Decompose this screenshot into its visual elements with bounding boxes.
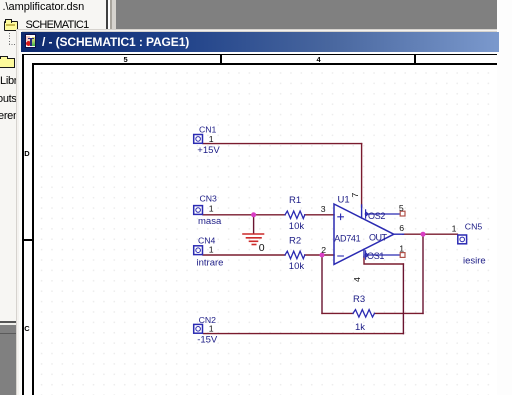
wire pin4 horizontal: [364, 257, 403, 265]
svg-text:R3: R3: [353, 294, 365, 305]
resistor R3: [353, 310, 375, 318]
svg-text:1: 1: [209, 324, 214, 334]
zone label 4: [317, 55, 321, 64]
zone tick top 2: [414, 54, 416, 65]
svg-text:7: 7: [350, 193, 360, 198]
resistor R1: [285, 211, 305, 219]
title bar: [21, 32, 499, 52]
svg-text:4: 4: [352, 277, 362, 282]
pin 4 stub: [363, 249, 365, 257]
wire intrare row: [203, 254, 334, 256]
project tree window background (top-left): [0, 0, 107, 32]
tree dotted branch: [9, 44, 16, 45]
connector CN2 symbol: [194, 324, 203, 333]
zone label 5: [124, 55, 128, 64]
resistor R2: [285, 251, 305, 259]
tree text amplificator.dsn: [3, 1, 85, 13]
tree item eren: [0, 110, 19, 122]
svg-text:1k: 1k: [355, 322, 365, 333]
svg-text:intrare: intrare: [197, 257, 224, 268]
op-amp plus mark: [338, 214, 344, 220]
inner left line (page frame): [32, 63, 34, 395]
wire +15V horizontal: [203, 143, 362, 145]
window edge dark line in gray area: [0, 333, 16, 334]
tree text SCHEMATIC1: [26, 19, 89, 31]
svg-text:0: 0: [259, 242, 265, 254]
zone label D: [24, 149, 29, 158]
wire feedback right vertical: [422, 234, 424, 313]
wire feedback left vertical: [321, 255, 323, 313]
tree item Library: [0, 75, 32, 87]
pin 6 stub: [394, 233, 404, 235]
svg-text:OS1: OS1: [367, 251, 384, 261]
tree item outs: [0, 93, 17, 105]
wire -15V horizontal: [204, 333, 404, 335]
no-connect square pin 1: [400, 253, 405, 258]
svg-text:1: 1: [452, 224, 457, 234]
wire masa row: [203, 214, 334, 216]
folder icon (tree): [0, 58, 15, 68]
svg-text:-15V: -15V: [197, 335, 218, 346]
svg-text:CN3: CN3: [200, 193, 218, 203]
outer left line: [22, 54, 24, 395]
junction output node: [421, 232, 426, 237]
connector CN4 symbol: [194, 246, 203, 255]
svg-text:10k: 10k: [289, 221, 305, 232]
svg-text:AD741: AD741: [334, 233, 360, 243]
tree dotted vertical: [9, 33, 10, 44]
zone label C: [24, 324, 29, 333]
junction masa-ground: [251, 212, 256, 217]
wire output row: [403, 233, 457, 235]
svg-text:R2: R2: [289, 236, 301, 247]
svg-text:1: 1: [399, 244, 404, 254]
pin OS1: [365, 251, 400, 259]
wire R3 row: [322, 312, 423, 314]
white strip right edge: [497, 0, 512, 395]
svg-text:3: 3: [321, 204, 326, 214]
wire ground drop: [253, 215, 255, 234]
MDI gray bottom-left: [0, 325, 16, 395]
svg-text:1: 1: [209, 244, 214, 254]
op-amp minus mark: [338, 255, 344, 257]
page canvas dotted grid: [34, 66, 497, 395]
pin 7 stub: [361, 205, 363, 218]
left tree strip under window: [0, 32, 16, 322]
tree window bottom border: [0, 321, 16, 323]
inner top line (page frame): [32, 63, 497, 65]
folder icon SCHEMATIC1: [4, 21, 18, 31]
ground 0 symbol: [243, 234, 264, 245]
connector CN1 symbol: [194, 135, 203, 144]
svg-text:+15V: +15V: [197, 145, 220, 156]
svg-text:6: 6: [399, 223, 404, 233]
pin OS2: [365, 210, 400, 218]
MDI dark gray background (top strip): [116, 0, 497, 31]
svg-text:1: 1: [209, 203, 214, 213]
title text: [42, 35, 189, 49]
wire +15V vertical to pin7: [361, 144, 363, 207]
border frame: outer top line: [22, 54, 497, 56]
svg-text:OUT: OUT: [369, 232, 388, 242]
svg-text:2: 2: [321, 245, 326, 255]
svg-text:R1: R1: [289, 195, 301, 206]
junction inverting input: [320, 253, 325, 258]
tree window right border: [106, 0, 108, 32]
svg-text:1: 1: [209, 134, 214, 144]
svg-text:U1: U1: [338, 195, 350, 206]
svg-text:CN1: CN1: [199, 124, 217, 134]
connector CN3 symbol: [194, 206, 203, 215]
zone tick top 1: [220, 54, 222, 65]
svg-text:OS2: OS2: [368, 211, 385, 221]
svg-text:masa: masa: [198, 216, 222, 227]
svg-text:5: 5: [399, 203, 404, 213]
wire -15V vertical: [402, 264, 404, 334]
svg-text:iesire: iesire: [463, 256, 486, 267]
svg-text:CN5: CN5: [465, 221, 483, 231]
zone tick left: [22, 239, 34, 241]
svg-text:10k: 10k: [289, 261, 305, 272]
connector CN5 symbol: [458, 235, 467, 244]
no-connect square pin 5: [400, 211, 405, 216]
op-amp U1 triangle: [334, 204, 394, 264]
title bar icon: [25, 34, 36, 48]
